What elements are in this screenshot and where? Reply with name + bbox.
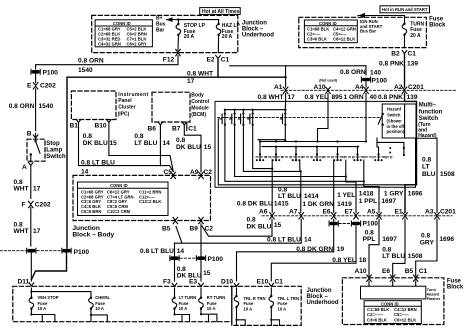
svg-text:0.8 PNK: 0.8 PNK [378,94,403,101]
svg-text:C6=12 BLK: C6=12 BLK [333,36,355,41]
svg-text:0.8: 0.8 [422,157,431,164]
svg-text:C5=6 BRN: C5=6 BRN [81,209,101,214]
svg-text:C4=32 GRN: C4=32 GRN [98,42,121,47]
connector C201 top row dashed line [281,89,456,91]
svg-text:(Not used): (Not used) [319,79,338,83]
svg-text:B2: B2 [391,51,400,58]
turn deck bus wires [260,142,366,147]
svg-text:C5=-----: C5=----- [394,312,409,317]
svg-text:P100: P100 [74,249,90,256]
wire 0.8 GRY 1696 from A3 to B5 [416,219,455,276]
svg-text:1 YEL: 1 YEL [337,192,355,199]
junction block body box [73,175,211,220]
hazard contact drop wire 3 to A7 [243,125,300,172]
svg-text:Hot at All Times: Hot at All Times [202,9,240,15]
svg-text:E2: E2 [207,57,215,64]
pin F12 [163,49,181,63]
svg-text:Lamp: Lamp [46,148,62,154]
svg-text:P100: P100 [363,221,379,228]
deck exit wire to A6 [271,160,273,212]
svg-text:Block – Body: Block – Body [72,231,114,238]
svg-text:1 ORN: 1 ORN [344,94,364,101]
CONN ID table (junction block body) [78,182,169,216]
pin A7 [289,208,304,219]
hazard contact 1 [220,109,226,126]
svg-text:1418: 1418 [359,191,374,198]
svg-text:Stop: Stop [46,141,60,147]
svg-text:Block: Block [447,285,464,291]
deck exit wire to A5 [364,160,379,212]
pin E6 [323,208,337,219]
pin B5 [162,217,178,232]
pin B10 [95,120,112,130]
hazard contact 3 [238,109,244,126]
svg-text:LT BLU: LT BLU [382,253,405,260]
connector P100 pair (left) [0,248,89,256]
svg-text:15: 15 [203,270,211,277]
svg-text:14: 14 [177,248,185,255]
pin B1 [70,120,81,130]
svg-text:1540: 1540 [39,103,54,110]
svg-text:1540: 1540 [78,67,93,74]
pin B2 / C1 [391,51,416,58]
svg-text:Turn/: Turn/ [427,288,437,292]
svg-text:A7: A7 [289,208,298,215]
svg-text:C201: C201 [408,84,424,91]
svg-text:0.8 LT BLU: 0.8 LT BLU [267,237,301,244]
svg-text:L: L [291,155,293,159]
svg-text:WHT: WHT [14,228,29,235]
svg-text:0.8 WHT: 0.8 WHT [258,94,284,101]
pin E / C202 [27,74,56,90]
svg-text:1696: 1696 [439,236,454,243]
wire 0.8 WHT 17 from E2C1: down-left-down long run [32,59,286,280]
svg-text:A5: A5 [367,208,376,215]
mechanical linkage dashed [218,117,382,119]
connector C201 bottom row dashed line [262,215,452,217]
svg-text:20 A: 20 A [184,34,195,40]
svg-text:B9: B9 [190,226,199,233]
hazard contact drop wire 4 to A6 [253,125,272,169]
svg-text:L: L [311,155,313,159]
svg-text:F3: F3 [163,278,171,285]
CONN ID table (fuse block bottom) [364,301,421,324]
pin B7 / C1 [172,122,197,133]
svg-text:0.8 ORN: 0.8 ORN [340,69,366,76]
svg-text:15: 15 [204,144,212,151]
svg-text:E3: E3 [189,278,197,285]
wire 0.8 PPL 1697 from A5 to A10 [363,219,398,276]
svg-text:17: 17 [33,228,41,235]
svg-text:0.8 LT BLU: 0.8 LT BLU [140,248,174,255]
svg-text:Cluster: Cluster [118,104,135,110]
svg-text:WHT: WHT [14,186,29,193]
svg-text:895: 895 [332,94,343,101]
pin F3 [163,278,177,286]
svg-text:1414: 1414 [304,193,319,200]
wire 0.8 PNK 139 (B2 to A2) [379,54,418,88]
svg-text:1415: 1415 [274,200,289,207]
svg-text:L: L [332,155,334,159]
pin E7 [345,208,359,219]
wire A3 0.8 LT BLU 1508 [422,138,455,212]
svg-text:Bus Bar: Bus Bar [360,29,376,34]
svg-text:Panel: Panel [118,98,132,104]
svg-text:VEH STOP: VEH STOP [38,295,59,300]
svg-text:Body: Body [191,93,204,99]
pin A6 [259,208,274,219]
pin C5 [164,169,176,179]
wire 0.8 YEL 18 from E7 to E10 [271,226,366,281]
junction block underhood (bottom, TRL) [232,286,301,325]
fuse block label [429,16,446,28]
svg-text:10 A: 10 A [95,306,104,311]
svg-text:D10: D10 [221,278,233,285]
svg-text:GRY: GRY [420,239,435,246]
svg-text:C8=2 GRY: C8=2 GRY [127,42,147,47]
pin D11 [18,279,34,286]
deck exit wire to E7 [346,160,356,212]
svg-text:CHMSL: CHMSL [95,295,110,300]
svg-text:139: 139 [407,60,418,67]
pin D10 [221,278,239,286]
svg-text:CONN ID: CONN ID [110,183,128,188]
deck exit wire to E6 [333,160,335,212]
svg-text:C1: C1 [188,126,197,133]
pin B9 / C2 [190,217,214,232]
svg-text:C13=2 BLK: C13=2 BLK [139,199,161,204]
svg-text:10 A: 10 A [244,306,253,311]
pin E10 / C1 [257,278,284,286]
fuse TRL L TRN 10A [269,288,299,325]
svg-text:10 A: 10 A [278,306,287,311]
svg-text:Switch: Switch [387,113,401,118]
svg-text:F: F [22,202,26,209]
body control module BCM box [152,92,210,122]
svg-text:1696: 1696 [408,191,423,198]
svg-text:E10: E10 [257,278,269,285]
svg-text:15: 15 [274,222,282,229]
IGN bus bar arrow [358,13,405,34]
tiny R L letters [265,155,392,159]
wire 0.8 WHT 17 to P100 and D11 [30,208,32,247]
svg-text:Junction: Junction [307,288,332,294]
svg-text:14: 14 [304,237,312,244]
label Hot at All Times [200,8,241,15]
svg-text:A1: A1 [274,84,283,91]
svg-text:Underhood: Underhood [307,300,339,306]
pin A10 [314,84,331,94]
svg-text:C2=------: C2=------ [367,312,384,317]
svg-text:17: 17 [288,94,296,101]
wire 0.8 DK BLU 15 from B9 to E3 [177,224,211,281]
hazard contact 2 [230,109,236,126]
wire A1 riser from ORN line [285,66,287,87]
svg-text:A4: A4 [355,84,364,91]
svg-text:C201: C201 [440,208,456,215]
svg-text:C1: C1 [408,51,417,58]
svg-text:C1: C1 [275,278,284,285]
junction block underhood (top) [92,15,238,52]
wire 0.8 DK GRN 19 from E6 to D10 [237,219,345,281]
svg-text:E7: E7 [345,208,353,215]
svg-text:0.8 DK GRN: 0.8 DK GRN [296,246,333,253]
svg-text:40: 40 [370,94,378,101]
connector P100 pair (body wires) [170,256,223,263]
deck exit wire to A7 [300,160,301,212]
svg-text:P100: P100 [208,256,224,263]
fuse TRL R TRN 10A [234,288,265,325]
svg-text:LT: LT [422,164,430,171]
pin E2 / C1 [207,56,230,64]
svg-text:0.8: 0.8 [83,133,92,140]
svg-text:0.8 LT BLU: 0.8 LT BLU [81,160,115,167]
svg-text:B5: B5 [162,226,171,233]
svg-text:L: L [372,155,374,159]
svg-text:C10=2 CRM: C10=2 CRM [107,209,131,214]
svg-text:14: 14 [81,169,89,176]
svg-text:Bar: Bar [156,28,164,34]
multifunction switch label [418,103,442,139]
turn hazard flasher [361,281,441,301]
wire labels above C201 bottom row [237,186,423,208]
svg-text:0.8 PNK: 0.8 PNK [379,60,404,67]
B+ bus bar arrow [156,16,219,34]
deck contact clusters [256,153,264,161]
fuse STOP LP 20A [176,20,206,50]
svg-text:C202: C202 [40,83,56,90]
svg-text:E6: E6 [382,268,390,275]
svg-text:A: A [22,164,27,171]
pin A4 [355,84,368,94]
svg-text:E6: E6 [323,208,331,215]
svg-text:(Shown: (Shown [387,119,403,124]
svg-text:C1: C1 [221,57,230,64]
deck stubs from bus [260,142,379,154]
wire 0.8 ORN 1540 horizontal [36,56,382,77]
hazard bus wire [225,109,285,111]
svg-text:Hot in RUN and START: Hot in RUN and START [382,7,428,12]
pin A9 / C2 [190,169,212,179]
fuse HAZ LP 20A [216,20,240,53]
svg-text:C3=6 BLK: C3=6 BLK [367,317,387,322]
pin A [22,163,33,172]
svg-text:DK BLU: DK BLU [176,144,201,151]
fuse VEH STOP 10A [29,288,59,322]
svg-text:D11: D11 [18,279,30,286]
svg-text:17: 17 [33,186,41,193]
svg-text:CONN ID: CONN ID [381,301,399,306]
svg-text:B7: B7 [172,126,181,133]
hazard contact 4 [248,109,254,126]
pin B [27,131,38,138]
fuse block (bottom right) [342,278,444,325]
pin A10 (fuse block bottom) [355,268,372,281]
pin E1 [395,208,408,219]
svg-text:F12: F12 [163,57,175,64]
svg-text:1697: 1697 [382,236,397,243]
svg-text:1 PPL: 1 PPL [359,198,377,205]
svg-text:0.8: 0.8 [134,133,143,140]
fuse RT TURN 10A [199,288,226,322]
svg-text:L: L [386,156,388,160]
wire label 0.8 LT BLU 14 horizontal [81,160,115,176]
svg-text:14: 14 [163,140,171,147]
hazard common drop wire to E1 [218,119,416,185]
wire 0.8 DK BLU 15 from B7 [176,125,211,172]
junction block underhood label (bottom) [307,288,339,306]
svg-text:A3: A3 [425,208,434,215]
pin E3 [189,278,203,286]
svg-text:Switch: Switch [46,154,66,160]
svg-text:Control: Control [191,99,209,105]
wire from P100 to D11 [30,253,32,281]
svg-text:C1: C1 [419,268,428,275]
pin A5 [367,208,381,219]
svg-text:P100: P100 [372,77,388,84]
svg-text:P100: P100 [43,70,59,77]
svg-text:B: B [27,131,32,138]
svg-text:L: L [352,155,354,159]
stop lamp contact (A1) [280,109,286,126]
wire 0.8 ORN 1540 to stop lamp switch [9,89,54,131]
junction block underhood label [242,21,274,39]
svg-text:PPL: PPL [363,236,376,243]
svg-text:19: 19 [337,246,345,253]
connector P100 (top right) [361,66,387,87]
svg-text:1508: 1508 [440,171,455,178]
svg-text:A2: A2 [394,84,403,91]
svg-text:A6: A6 [259,208,268,215]
svg-text:LT TURN: LT TURN [179,295,197,300]
svg-text:17: 17 [187,78,195,85]
svg-text:Block –: Block – [307,294,329,300]
pin A2 / C201 [394,84,424,94]
deck mechanical dashed [256,156,392,158]
hazard box drop wires [377,138,404,155]
connector P100 pair (E6 E7 wires) [329,221,378,228]
pin E6 (fuse block bottom) [382,268,395,281]
wire CHMSL feed [31,292,91,298]
svg-text:10 A: 10 A [179,306,188,311]
wire 0.8 WHT 17 (stop lamp to C202 F) [14,167,41,199]
svg-text:1 GRY: 1 GRY [384,191,404,198]
svg-text:B10: B10 [95,123,107,130]
hazard switch box [378,104,416,138]
pin B6 [148,122,163,133]
svg-text:A10: A10 [355,268,367,275]
wires A1 A10 A4 A2 into switch box [285,94,287,107]
junction block body label [72,225,114,239]
svg-text:L: L [271,155,273,159]
svg-text:RT TURN: RT TURN [207,295,225,300]
svg-text:1419: 1419 [337,201,352,208]
wire 0.8 LT BLU from B6 [159,125,161,166]
svg-text:function: function [419,109,443,115]
svg-text:0.8 ORN: 0.8 ORN [78,57,104,64]
svg-text:B5: B5 [405,268,414,275]
pin B5 / C1 (fuse block bottom) [405,268,428,281]
svg-text:0.8 WHT: 0.8 WHT [187,70,213,77]
svg-text:1 DK GRN: 1 DK GRN [302,201,334,208]
svg-text:10 A: 10 A [207,306,216,311]
pin A3 / C201 [425,208,456,219]
fuse block (top right) [299,17,427,47]
svg-text:0.8 DK BLU: 0.8 DK BLU [237,200,273,207]
svg-text:Hazard): Hazard) [418,133,437,139]
svg-text:0.8 ORN: 0.8 ORN [9,103,35,110]
svg-text:CONN ID: CONN ID [319,21,337,26]
svg-text:10 A: 10 A [38,306,47,311]
svg-text:B6: B6 [148,126,157,133]
svg-text:15: 15 [110,140,118,147]
svg-text:E1: E1 [395,208,403,215]
svg-text:DK BLU: DK BLU [247,223,272,230]
svg-text:B+: B+ [156,16,163,22]
fuse LT TURN 10A [172,288,196,322]
svg-text:1508: 1508 [408,253,423,260]
svg-text:Hazard: Hazard [427,293,440,297]
wire 0.8 DK BLU 15 from A6 to B9 [202,217,282,237]
svg-text:A10: A10 [314,84,326,91]
wire 0.8 LT BLU 14 from B10 [109,123,173,172]
svg-text:(BCM): (BCM) [191,112,206,118]
svg-text:Block: Block [429,22,446,28]
svg-text:0.8 YEL: 0.8 YEL [332,257,356,264]
svg-text:20 A: 20 A [222,34,233,40]
svg-text:0.8 YEL: 0.8 YEL [305,94,329,101]
connector P100 (top left) [31,69,58,76]
svg-text:18: 18 [359,257,367,264]
fuse TURN 20A [402,22,424,48]
svg-text:Module: Module [191,106,209,112]
svg-text:Flasher: Flasher [427,297,441,301]
bottom left fuse box [13,286,232,321]
wire 0.8 LT BLU 14 from A7 to B5 and F3 [140,219,312,281]
svg-text:Multi–: Multi– [419,103,437,109]
svg-text:20 A: 20 A [410,33,421,39]
svg-text:position): position) [387,129,405,134]
pin F / C202 [22,201,51,208]
multifunction switch box [215,101,437,187]
instrument panel cluster IPC box [71,91,148,120]
wire labels below C201 [258,94,418,101]
svg-text:Fuse: Fuse [447,278,462,284]
svg-text:Underhood: Underhood [242,33,274,39]
svg-text:Hazard: Hazard [387,106,401,111]
hazard contact drop wire 1 to A5 [225,125,364,182]
svg-text:C202: C202 [35,202,51,209]
svg-text:1697: 1697 [381,198,396,205]
fuse CHMSL 10A [89,295,111,322]
svg-text:C6=12 BLK: C6=12 BLK [394,317,416,322]
svg-text:DK BLU: DK BLU [83,140,108,147]
svg-text:140: 140 [370,70,381,77]
wire 0.8 DK BLU 15 from B1 [79,123,174,172]
svg-text:LT BLU: LT BLU [278,193,301,200]
svg-text:LT BLU: LT BLU [134,140,157,147]
svg-text:C3=6 BLK: C3=6 BLK [307,36,327,41]
wire 0.8 LT BLU 1508 from E1 to E6 [382,219,423,276]
svg-text:L: L [390,155,392,159]
label Hot in RUN and START [380,6,430,13]
svg-text:CONN ID: CONN ID [113,21,131,26]
svg-text:139: 139 [407,94,418,101]
svg-text:(IPC): (IPC) [118,112,130,118]
CONN ID table (fuse block top) [304,20,357,43]
CONN ID table (junction block underhood top) [95,20,152,47]
svg-text:BLU: BLU [422,171,436,178]
